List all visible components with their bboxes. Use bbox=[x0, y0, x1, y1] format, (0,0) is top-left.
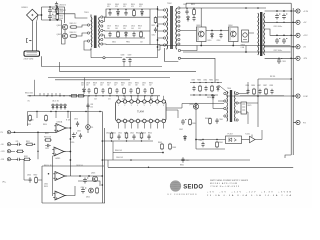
svg-text:R830: R830 bbox=[121, 82, 125, 84]
svg-text:230V 50Hz: 230V 50Hz bbox=[24, 59, 34, 61]
component R831 bbox=[137, 87, 140, 94]
svg-text:105: 105 bbox=[142, 85, 145, 87]
wire pin10 stub bbox=[156, 123, 158, 129]
pin T802-p5 bbox=[164, 44, 166, 46]
svg-text:C858 104: C858 104 bbox=[76, 165, 83, 167]
diode D833 bbox=[64, 104, 67, 110]
junction bbox=[137, 95, 138, 96]
svg-text:COM: COM bbox=[303, 96, 308, 98]
junction bbox=[211, 82, 212, 83]
company logo bbox=[170, 180, 181, 191]
terminal PG bbox=[294, 120, 300, 124]
svg-text:1N 2x 1N: 1N 2x 1N bbox=[52, 101, 59, 103]
wire oa2 out link bbox=[66, 151, 71, 153]
svg-text:C856: C856 bbox=[74, 119, 78, 121]
wire sec bot bbox=[103, 43, 160, 46]
capacitor C845 bbox=[132, 134, 135, 140]
svg-text:106: 106 bbox=[93, 85, 96, 87]
svg-text:472: 472 bbox=[139, 6, 142, 8]
svg-text:6: 6 bbox=[150, 105, 151, 107]
svg-text:C853: C853 bbox=[45, 148, 49, 150]
capacitor C801 bbox=[48, 8, 53, 14]
wire mid bus v2 bbox=[107, 160, 109, 167]
junction bbox=[49, 19, 51, 21]
pin U801-5 bbox=[143, 100, 146, 103]
capacitor C864 bbox=[215, 118, 218, 124]
junction bbox=[48, 173, 50, 175]
wire aux top bbox=[57, 13, 88, 18]
svg-text:C83: C83 bbox=[90, 104, 93, 106]
svg-text:R828: R828 bbox=[93, 82, 97, 84]
wire oa4 out bbox=[67, 186, 75, 196]
junction bbox=[276, 34, 278, 36]
junction bbox=[101, 175, 103, 177]
wire inner box bbox=[78, 181, 100, 186]
wire row1 bbox=[113, 152, 163, 154]
svg-text:13: 13 bbox=[137, 118, 139, 120]
standby transformer T804 bbox=[227, 90, 235, 122]
wire pin12 stub bbox=[143, 123, 145, 129]
wire opto right bbox=[242, 139, 250, 141]
svg-text:C811: C811 bbox=[123, 4, 127, 6]
junction bbox=[211, 94, 212, 95]
component C829 bbox=[101, 88, 104, 94]
capacitor C866 bbox=[28, 177, 31, 183]
junction bbox=[56, 6, 58, 8]
resistor R857 bbox=[35, 176, 38, 183]
svg-text:R831: R831 bbox=[135, 82, 139, 84]
transistor Q801 bbox=[62, 24, 67, 29]
wire out4 bbox=[265, 46, 296, 48]
capacitor C823 bbox=[282, 38, 287, 44]
wire out3 bbox=[289, 34, 296, 36]
pin T801-s2 bbox=[101, 25, 103, 27]
junction bbox=[292, 21, 294, 23]
AC input connector CN801 bbox=[24, 51, 40, 56]
op-amp IC801B bbox=[52, 147, 66, 156]
pin T804-l101 bbox=[224, 100, 226, 102]
wire opto left bbox=[196, 139, 226, 141]
junction bbox=[195, 103, 197, 105]
wire sec rail3 bbox=[103, 30, 150, 33]
svg-text:R853: R853 bbox=[27, 124, 31, 126]
transistor Q805 bbox=[92, 176, 97, 181]
op-amp IC801A bbox=[54, 124, 68, 133]
pin T802-s5 bbox=[178, 29, 180, 31]
terminal +3.3V bbox=[294, 9, 300, 13]
wire bl frame bottom bbox=[42, 202, 105, 204]
svg-text:C85: C85 bbox=[16, 141, 19, 143]
capacitor C861 bbox=[201, 142, 204, 148]
svg-text:R858: R858 bbox=[24, 156, 28, 158]
svg-text:104: 104 bbox=[121, 85, 124, 87]
junction bbox=[290, 34, 292, 36]
junction bbox=[95, 95, 96, 96]
svg-text:R852 10K: R852 10K bbox=[44, 137, 52, 139]
svg-text:R861: R861 bbox=[180, 164, 184, 166]
svg-text:C857: C857 bbox=[81, 187, 85, 189]
svg-text:106: 106 bbox=[123, 28, 126, 30]
svg-text:11: 11 bbox=[150, 118, 152, 120]
component C834 bbox=[204, 86, 207, 92]
resistor R851 bbox=[26, 143, 34, 145]
diode D810 bbox=[211, 33, 214, 39]
svg-text:SWITCHING POWER SUPPLY 300W/3: SWITCHING POWER SUPPLY 300W/3 bbox=[210, 180, 249, 182]
svg-text:103: 103 bbox=[100, 85, 103, 87]
capacitor C852 bbox=[16, 158, 22, 161]
junction bbox=[199, 94, 200, 95]
wire divider1 left drop bbox=[41, 56, 43, 66]
svg-text:R810: R810 bbox=[131, 4, 135, 6]
svg-text:470: 470 bbox=[107, 6, 110, 8]
wire t802 left stub 4 bbox=[158, 37, 164, 39]
pin T804-l116 bbox=[224, 115, 226, 117]
component R810 bbox=[133, 10, 136, 17]
resistor R864 bbox=[216, 141, 219, 148]
pin T804-l93.5 bbox=[224, 92, 226, 94]
pin T802-s9 bbox=[178, 49, 180, 51]
wire sec rail4 bbox=[103, 35, 145, 38]
svg-text:R815: R815 bbox=[191, 4, 195, 6]
wire t804 right w1 bbox=[238, 82, 248, 94]
transformer T802 bbox=[167, 6, 177, 49]
junction bbox=[276, 10, 278, 12]
svg-text:D806: D806 bbox=[123, 26, 127, 28]
wire t802 pin10 out bbox=[181, 58, 215, 82]
junction bbox=[199, 82, 200, 83]
pin T801-s5 bbox=[101, 38, 103, 40]
svg-text:C831: C831 bbox=[128, 82, 132, 84]
input terminal +12S bbox=[7, 150, 12, 153]
resistor R853 bbox=[29, 114, 32, 121]
svg-text:R870: R870 bbox=[248, 105, 252, 107]
junction bbox=[133, 9, 134, 10]
wire divider2 left drop bbox=[59, 62, 61, 72]
svg-text:5: 5 bbox=[144, 105, 145, 107]
wire pin5 stub bbox=[143, 96, 145, 100]
svg-text:R812: R812 bbox=[115, 26, 119, 28]
resistor R805 bbox=[70, 26, 78, 28]
component D804 bbox=[141, 10, 144, 16]
resistor R806 bbox=[70, 35, 78, 37]
svg-text:R813: R813 bbox=[138, 26, 142, 28]
wire pin4 stub bbox=[137, 96, 139, 100]
wire sec rail2 bbox=[103, 17, 150, 21]
capacitor C818 bbox=[219, 33, 222, 39]
svg-text:IC801A: IC801A bbox=[57, 121, 64, 124]
junction bbox=[186, 8, 187, 9]
test point stubs bbox=[40, 93, 60, 96]
wire pin3 stub bbox=[131, 96, 133, 100]
svg-text:C860: C860 bbox=[44, 183, 48, 185]
junction bbox=[202, 139, 203, 140]
junction bbox=[50, 111, 51, 112]
diode D830 bbox=[52, 104, 55, 110]
wire c809 stub bbox=[129, 63, 131, 66]
wire mid rail1 bbox=[28, 95, 161, 97]
svg-text:C864: C864 bbox=[219, 119, 223, 121]
terminal +12V bbox=[294, 33, 300, 37]
wire out1 bbox=[265, 10, 296, 12]
capacitor C844 bbox=[117, 134, 120, 140]
wire bus bottom link bbox=[158, 45, 161, 51]
capacitor C821 bbox=[282, 14, 287, 20]
svg-text:C813: C813 bbox=[107, 26, 111, 28]
junction bbox=[292, 46, 294, 48]
wire tl431 out bbox=[258, 130, 262, 140]
junction bbox=[14, 131, 16, 133]
wire row2 bbox=[102, 159, 250, 161]
svg-text:100: 100 bbox=[107, 28, 110, 30]
wire t801 bottom bbox=[84, 41, 91, 50]
wire lower rail2 bbox=[183, 51, 291, 53]
wire q803 to q804 bbox=[206, 30, 229, 32]
wire pin11 stub bbox=[150, 123, 152, 129]
resistor R856 bbox=[96, 187, 99, 194]
pin U801-10 bbox=[156, 119, 159, 122]
capacitor C802 bbox=[48, 14, 53, 20]
junction bbox=[200, 45, 202, 47]
junction bbox=[29, 95, 30, 96]
junction bbox=[37, 151, 38, 152]
capacitor C863 bbox=[181, 157, 184, 163]
svg-text:R8 330: R8 330 bbox=[270, 76, 275, 78]
svg-text:R844: R844 bbox=[148, 132, 152, 134]
terminal +5V bbox=[294, 20, 300, 24]
wire fb vert2 bbox=[195, 104, 197, 150]
wire link bus bbox=[157, 6, 159, 50]
component C828 bbox=[87, 88, 90, 94]
rectifier module Q803 bbox=[197, 27, 207, 42]
svg-text:C806 472: C806 472 bbox=[59, 10, 66, 12]
junction bbox=[116, 95, 117, 96]
pin T802-s2 bbox=[178, 16, 180, 18]
junction bbox=[157, 25, 159, 27]
wire divider 2 bbox=[60, 71, 196, 73]
component C838 bbox=[270, 89, 273, 95]
junction bbox=[148, 167, 150, 169]
wire pin9 stub bbox=[163, 123, 165, 129]
rectifier module Q804 bbox=[229, 27, 239, 42]
svg-text:101: 101 bbox=[128, 85, 131, 87]
wire top rail bbox=[42, 7, 65, 23]
junction bbox=[101, 184, 103, 186]
junction bbox=[70, 127, 72, 129]
svg-text:ITEM No:LW-6S23: ITEM No:LW-6S23 bbox=[210, 186, 240, 188]
pin T801-b bbox=[103, 57, 105, 59]
svg-text:C818: C818 bbox=[217, 40, 221, 42]
capacitor C839 bbox=[86, 103, 89, 109]
junction bbox=[70, 151, 72, 153]
svg-text:JP1 ▸: JP1 ▸ bbox=[2, 181, 6, 184]
svg-text:D803: D803 bbox=[115, 4, 119, 6]
junction bbox=[157, 39, 159, 41]
svg-text:R864: R864 bbox=[219, 142, 223, 144]
capacitor C816 bbox=[185, 9, 188, 15]
component R830 bbox=[123, 87, 126, 94]
pin T801-s0 bbox=[101, 16, 103, 18]
resistor R815 bbox=[193, 8, 196, 15]
transistor Q802 bbox=[62, 33, 67, 38]
wire t802 left stub 0 bbox=[158, 9, 164, 11]
wire pin15 stub bbox=[124, 123, 126, 129]
svg-text:BD801: BD801 bbox=[22, 7, 29, 9]
wire bridge to riser bbox=[38, 14, 41, 16]
svg-text:TH801: TH801 bbox=[241, 44, 246, 46]
svg-text:220u: 220u bbox=[52, 11, 56, 13]
wire row3 bbox=[108, 166, 293, 168]
pin U801-4 bbox=[136, 100, 139, 103]
component R829 bbox=[109, 87, 112, 94]
wire out2 bbox=[265, 21, 296, 23]
resistor R854 bbox=[45, 114, 48, 121]
svg-text:C836: C836 bbox=[245, 85, 249, 87]
wire fb top rail bbox=[190, 82, 222, 84]
svg-text:C805 472: C805 472 bbox=[59, 5, 66, 7]
pin T804-r120 bbox=[236, 119, 238, 121]
resistor R858 bbox=[23, 158, 31, 160]
svg-text:16: 16 bbox=[117, 118, 119, 120]
svg-text:C865: C865 bbox=[77, 131, 81, 133]
svg-text:C841: C841 bbox=[118, 132, 122, 134]
svg-text:+12V: +12V bbox=[303, 35, 308, 37]
wire rail riser bbox=[41, 7, 43, 20]
svg-text:R860 103: R860 103 bbox=[115, 150, 122, 152]
svg-text:D804: D804 bbox=[139, 4, 143, 6]
junction bbox=[37, 131, 39, 133]
junction bbox=[85, 111, 86, 112]
terminal -5V bbox=[294, 45, 300, 49]
wire sense line3 bbox=[12, 150, 15, 152]
svg-text:C863: C863 bbox=[185, 160, 189, 162]
junction bbox=[117, 9, 118, 10]
junction bbox=[102, 95, 103, 96]
wire t802 left stub 2 bbox=[158, 23, 164, 25]
wire sense drop bbox=[21, 159, 28, 180]
wire fb low bbox=[196, 148, 225, 150]
svg-text:FR30: FR30 bbox=[126, 42, 130, 44]
junction bbox=[126, 140, 127, 141]
component C832 bbox=[143, 88, 146, 94]
op-amp IC801C bbox=[53, 172, 67, 181]
wire t802 pin9 out bbox=[181, 46, 198, 51]
pin T802-s1 bbox=[178, 11, 180, 13]
svg-text:C842: C842 bbox=[130, 132, 134, 134]
svg-text:103: 103 bbox=[94, 99, 97, 101]
junction bbox=[102, 140, 104, 142]
wire mid bus v bbox=[101, 112, 103, 204]
pin U801-6 bbox=[149, 100, 152, 103]
junction bbox=[70, 159, 72, 161]
wire under-ic drop bbox=[112, 141, 114, 153]
svg-text:C809: C809 bbox=[128, 55, 132, 57]
capacitor C820 bbox=[275, 14, 280, 20]
wire pson line bbox=[12, 130, 56, 132]
input terminal PS bbox=[7, 131, 12, 134]
svg-text:C822 1000u: C822 1000u bbox=[273, 50, 282, 52]
inline resistor R825 bbox=[77, 95, 85, 97]
component C813 bbox=[108, 32, 111, 38]
wire t802 left stub 5 bbox=[158, 44, 164, 46]
wire under-ic rail bbox=[102, 140, 153, 142]
resistor R863 bbox=[169, 143, 172, 150]
junction bbox=[70, 138, 72, 140]
capacitor C809 bbox=[128, 58, 131, 64]
svg-text:R811: R811 bbox=[152, 25, 156, 27]
terminal -12V bbox=[294, 56, 300, 60]
junction bbox=[37, 183, 39, 185]
wire top link drop bbox=[185, 3, 187, 8]
wire oa1 out link bbox=[68, 127, 71, 129]
junction bbox=[283, 10, 285, 12]
svg-text:+3.3V: +3.3V bbox=[303, 11, 309, 13]
pin T804-l108.5 bbox=[224, 107, 226, 109]
junction bbox=[193, 94, 194, 95]
wire rail2 drop2 bbox=[55, 112, 57, 119]
diode D827 bbox=[184, 135, 187, 141]
svg-text:R829: R829 bbox=[107, 82, 111, 84]
pin U801-15 bbox=[123, 119, 126, 122]
wire bus drop1 bbox=[245, 46, 247, 53]
wire sec vert x150 bbox=[149, 9, 151, 45]
junction bbox=[211, 30, 213, 32]
junction bbox=[41, 14, 43, 16]
svg-text:9: 9 bbox=[163, 118, 164, 120]
junction bbox=[141, 9, 142, 10]
PWM controller IC U801 TL494 bbox=[116, 102, 167, 122]
svg-text:C838: C838 bbox=[269, 85, 273, 87]
pin T802-p3 bbox=[164, 30, 166, 32]
capacitor C859 bbox=[81, 188, 86, 194]
junction bbox=[283, 22, 284, 23]
component R837 bbox=[265, 88, 268, 95]
junction bbox=[290, 57, 292, 59]
junction bbox=[151, 95, 152, 96]
diode D826 bbox=[212, 94, 215, 100]
svg-text:2: 2 bbox=[124, 105, 125, 107]
wire mid rail2 bbox=[28, 111, 103, 113]
wire q drop bbox=[62, 20, 66, 44]
wire divider 4 bbox=[55, 79, 130, 81]
junction bbox=[232, 45, 234, 47]
component C830 bbox=[115, 88, 118, 94]
wire oa3 out bbox=[65, 175, 102, 177]
capacitor C856 bbox=[76, 121, 79, 127]
svg-text:476: 476 bbox=[123, 6, 126, 8]
svg-text:C840: C840 bbox=[106, 132, 110, 134]
wire bl frame left bbox=[41, 166, 43, 203]
resistor R865 bbox=[189, 118, 192, 125]
junction bbox=[245, 7, 247, 9]
svg-text:DC CONVERTERS: DC CONVERTERS bbox=[168, 194, 198, 196]
capacitor C824 bbox=[277, 58, 282, 64]
wire out3 stub bbox=[265, 29, 289, 35]
pin U801-13 bbox=[136, 119, 139, 122]
component C836 bbox=[246, 89, 249, 95]
wire drop link bbox=[37, 15, 39, 22]
wire pin6 stub bbox=[150, 96, 152, 100]
wire divider 3 bbox=[48, 77, 170, 79]
shunt reg U802 TL431 bbox=[250, 135, 259, 143]
pin T801-2 bbox=[87, 32, 89, 34]
junction bbox=[220, 30, 222, 32]
junction bbox=[55, 111, 56, 112]
svg-text:C861: C861 bbox=[199, 140, 203, 142]
wire c808 stub bbox=[123, 63, 125, 66]
capacitor C846 bbox=[147, 134, 150, 140]
pin T801-s3 bbox=[101, 29, 103, 31]
wire fb rail bbox=[196, 103, 224, 105]
